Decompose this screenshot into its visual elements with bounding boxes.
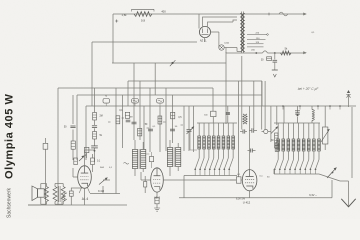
resistor AB2 cath	[154, 198, 160, 212]
speaker wires	[28, 184, 63, 206]
tap 110	[247, 46, 264, 48]
wire comb extra2	[188, 106, 190, 151]
fuse Si	[279, 12, 288, 16]
coil L2-7	[304, 123, 310, 174]
vertical x86	[85, 106, 87, 160]
label col1b	[100, 135, 103, 137]
speaker cone	[32, 186, 38, 201]
vertical x226	[225, 52, 227, 124]
label U412	[243, 201, 251, 205]
comp above bank2	[295, 106, 300, 123]
wire rvert 1	[238, 81, 240, 177]
electrolytic tube A	[62, 193, 67, 205]
grid wire AL4	[73, 168, 78, 177]
variable cap bank2	[321, 106, 330, 150]
antenna	[346, 90, 351, 107]
wire comb 7	[165, 88, 167, 151]
label 150	[256, 38, 260, 40]
coil L1-6	[219, 123, 225, 176]
wire feed 284	[283, 106, 285, 123]
label 5k 01	[100, 167, 113, 169]
bank1 feed a	[204, 111, 216, 123]
wire can2	[170, 140, 178, 176]
switch part c	[157, 99, 164, 107]
coil L1-3	[204, 123, 210, 176]
coil L1-5	[214, 123, 220, 176]
choke left bank2	[275, 133, 278, 148]
wire bottom right up	[331, 180, 333, 198]
label 220	[255, 33, 259, 35]
coil L2-3	[284, 123, 290, 174]
box near tubeB top	[145, 152, 154, 168]
coil L1-2	[199, 123, 205, 176]
bus bottom right	[179, 197, 332, 199]
rectifier tube AZ11	[199, 26, 210, 37]
wire rvert 7	[270, 106, 272, 142]
wire rvert 8	[276, 106, 278, 125]
coil L2-2	[279, 123, 285, 174]
capacitor electrolytic 30u	[261, 53, 277, 62]
capacitor mid b	[148, 129, 153, 131]
resistor col1 b	[93, 132, 97, 140]
wire rvert 5	[261, 81, 263, 130]
wire AB2 right	[163, 179, 236, 181]
arrow B+ end	[303, 51, 307, 54]
speaker driver box	[38, 189, 45, 197]
resistor AL4 right	[91, 154, 95, 172]
power transformer core	[242, 12, 244, 54]
label 01b	[152, 126, 156, 128]
ground arrow bottom right	[341, 199, 355, 207]
capacitor col1 c	[91, 146, 98, 148]
wire cathode out	[205, 32, 227, 53]
bus y95	[77, 94, 262, 96]
resistor col2	[71, 141, 75, 149]
capacitor left small	[43, 138, 48, 205]
resistor mid a	[116, 116, 120, 124]
osc coil pair	[243, 114, 247, 124]
output transformer core	[59, 186, 61, 202]
wire comb 3	[133, 63, 135, 140]
coil L1-8	[228, 123, 234, 176]
wire comb 4	[139, 81, 141, 140]
resistor R-mains	[132, 9, 155, 16]
wire comb extra3	[193, 106, 195, 152]
coil L1-4	[209, 123, 215, 176]
label mid1	[119, 110, 123, 112]
trimmer arrow left	[79, 155, 86, 162]
label AL4	[82, 197, 89, 201]
wire comb 5	[149, 88, 151, 152]
bank2 bottom bus	[274, 169, 319, 174]
resistor field coil	[281, 48, 292, 56]
transformer primary	[240, 14, 242, 52]
transformer secondary	[243, 14, 245, 52]
wire can1	[135, 140, 143, 176]
bank1 bottom bus	[184, 176, 237, 198]
tube AB2	[151, 168, 164, 192]
label 63V right	[309, 193, 317, 197]
wire y42	[92, 41, 197, 43]
trimmer bank2	[271, 127, 278, 134]
coil L2-8	[310, 123, 316, 174]
coil L1-1	[194, 123, 200, 176]
bus bottom left	[28, 204, 127, 206]
IF can 2	[167, 147, 180, 167]
wire comb 6	[159, 106, 161, 152]
label ACH1 r	[260, 176, 271, 179]
dash e	[108, 121, 111, 123]
potentiometer vol	[99, 178, 110, 194]
node B+	[274, 52, 276, 54]
comp circle	[262, 129, 271, 133]
coil L2-9	[315, 123, 321, 174]
wire comb 8	[172, 95, 174, 143]
tube AL4	[78, 166, 92, 193]
wire top bus	[113, 13, 306, 15]
wire rvert 6	[264, 81, 266, 130]
label mid3	[178, 117, 182, 119]
dash b	[147, 127, 150, 129]
label 63V	[236, 198, 246, 201]
wire anode2	[208, 20, 238, 27]
tuning arrow right	[327, 168, 337, 179]
pilot lamp	[219, 45, 224, 50]
vertical x155 heater	[154, 63, 156, 95]
tap 150	[247, 39, 266, 41]
wire comb 1	[115, 88, 117, 194]
cap mid2	[240, 129, 247, 133]
bank2 top bus	[274, 122, 320, 124]
coil L2-6	[299, 123, 305, 174]
label 40u	[251, 50, 255, 52]
coil L2-4	[289, 123, 295, 174]
switch part b	[132, 99, 139, 107]
junction tick 3 on y106	[317, 105, 319, 109]
maker Sachsenwerk (rotated)	[7, 187, 13, 218]
capacitor mid d	[187, 130, 192, 132]
junction tick 5 on y106	[339, 105, 341, 109]
resistor AL4 cath	[69, 188, 82, 205]
resistor mid b	[125, 112, 129, 118]
bus y106	[86, 105, 356, 107]
arrow top bus end	[303, 13, 307, 16]
capacitor col1	[92, 126, 97, 128]
bus y88	[58, 87, 213, 89]
wire comb 2	[122, 95, 124, 148]
bus y81	[128, 80, 262, 82]
junction tick 2 on y106	[299, 105, 301, 109]
label 400	[161, 10, 166, 14]
label mid2	[145, 124, 148, 126]
label AB2	[154, 196, 161, 200]
wire tubeC bottom	[249, 191, 251, 198]
label N413	[98, 191, 105, 193]
vertical x213	[212, 88, 214, 111]
resistor tubeC left	[230, 174, 242, 183]
bus y63	[112, 60, 226, 66]
label AZ11	[200, 38, 207, 42]
osc coil above bank2	[312, 106, 314, 123]
wire AB2 left grid	[141, 172, 151, 180]
resistor 30u right	[271, 140, 279, 151]
wire B+ bus	[226, 51, 306, 54]
resistor under can1	[144, 176, 147, 193]
label 1M	[129, 117, 132, 119]
vertical x262 right	[261, 81, 263, 106]
cap pair mid	[249, 128, 257, 132]
junction tick 4 on y106	[329, 105, 331, 109]
wire right edge	[351, 107, 353, 178]
speaker field coil	[45, 187, 49, 202]
IF can 1	[132, 149, 145, 169]
junction tick 1 on y106	[282, 105, 284, 109]
cap x128	[126, 120, 131, 122]
wire rect top	[198, 14, 200, 29]
label 50	[64, 126, 67, 129]
output transformer primary	[53, 187, 57, 202]
wire anode1	[203, 17, 238, 27]
title Olympia 405 W (rotated)	[4, 94, 16, 179]
label 125	[255, 42, 259, 44]
wire col1	[94, 88, 96, 162]
vertical x58 box edge	[57, 88, 59, 205]
dash d	[181, 124, 184, 126]
wire lamp	[224, 48, 240, 52]
tick mains	[268, 13, 270, 16]
tilde can1	[124, 163, 129, 165]
wire diag to ground	[319, 174, 349, 207]
bus bottom mid	[90, 193, 120, 195]
label col1	[100, 116, 103, 118]
bank1 feed b	[226, 106, 230, 123]
output transformer secondary	[61, 187, 65, 202]
wire x92 vertical	[91, 42, 93, 106]
padder pair	[248, 149, 256, 153]
ground after cap	[272, 62, 278, 77]
label a-n	[311, 32, 315, 34]
label 50c	[175, 126, 178, 128]
wire AL4 top	[85, 150, 95, 166]
label val AL4	[97, 161, 101, 163]
bank1 top bus	[197, 122, 237, 124]
capacitor mid a	[132, 122, 137, 124]
trimmer bank1	[187, 127, 198, 151]
vertical x128	[127, 81, 129, 106]
wire rvert 4	[253, 81, 255, 129]
wire col2	[72, 95, 74, 160]
wire rvert 3	[248, 106, 250, 170]
tube ACH1	[242, 170, 257, 191]
label left of R	[122, 13, 128, 17]
dash a	[122, 117, 125, 119]
note alle Werte	[298, 87, 320, 91]
node plus mark	[115, 20, 118, 23]
resistor mid d	[158, 116, 162, 124]
box mid cap	[85, 147, 89, 158]
tap 125	[247, 43, 264, 45]
vertical x77	[76, 95, 78, 160]
wire AL4 bottom	[84, 188, 86, 205]
wire comb extra1	[143, 106, 145, 150]
capacitor col2	[70, 126, 75, 128]
label lamp	[224, 42, 229, 45]
capacitor mid c	[170, 129, 175, 131]
wire rvert 2	[241, 56, 243, 130]
switch part a	[103, 96, 110, 107]
wire left vertical	[112, 14, 114, 63]
coil L2-1	[274, 123, 280, 174]
resistor mid c	[138, 128, 142, 136]
label R-mains	[141, 19, 146, 23]
resistor AL4 left	[74, 158, 78, 165]
resistor col1 a	[93, 113, 97, 121]
resistor mid e	[171, 112, 175, 119]
coil L1-7	[223, 123, 229, 176]
wire comb 9	[183, 106, 185, 151]
wire AB2 bottom	[156, 192, 158, 197]
coil L2-5	[294, 123, 300, 174]
tap 220	[247, 34, 268, 36]
dash c	[163, 121, 166, 123]
